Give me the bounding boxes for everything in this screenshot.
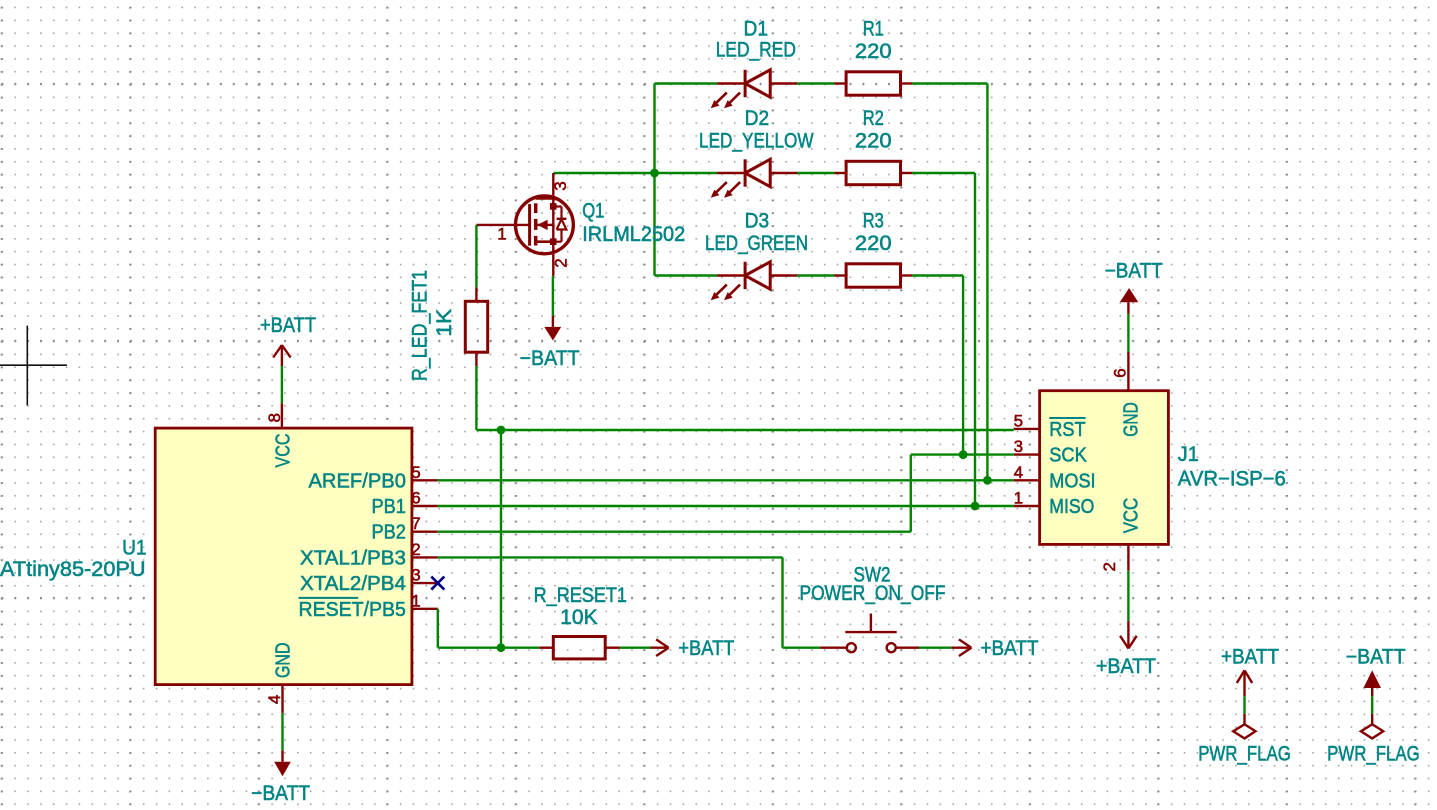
svg-text:MISO: MISO xyxy=(1049,496,1094,518)
svg-text:XTAL1/PB3: XTAL1/PB3 xyxy=(300,547,406,569)
svg-text:Q1: Q1 xyxy=(582,199,604,222)
svg-text:4: 4 xyxy=(265,695,284,704)
svg-text:LED_YELLOW: LED_YELLOW xyxy=(699,130,814,153)
svg-text:D1: D1 xyxy=(744,18,769,41)
svg-text:D2: D2 xyxy=(745,107,770,130)
svg-text:5: 5 xyxy=(411,463,420,482)
svg-text:3: 3 xyxy=(1014,437,1023,456)
svg-text:LED_RED: LED_RED xyxy=(716,39,796,62)
svg-text:220: 220 xyxy=(855,130,892,153)
svg-text:ATtiny85-20PU: ATtiny85-20PU xyxy=(0,558,146,581)
svg-text:8: 8 xyxy=(265,413,284,422)
svg-text:2: 2 xyxy=(1100,562,1119,571)
svg-text:220: 220 xyxy=(855,40,892,63)
svg-text:R_RESET1: R_RESET1 xyxy=(534,584,627,607)
svg-text:SCK: SCK xyxy=(1049,445,1087,467)
svg-text:7: 7 xyxy=(411,514,420,533)
svg-text:10K: 10K xyxy=(560,606,598,629)
svg-text:+BATT: +BATT xyxy=(678,637,734,660)
svg-text:6: 6 xyxy=(1110,368,1129,377)
svg-text:U1: U1 xyxy=(122,536,147,559)
svg-text:AVR−ISP−6: AVR−ISP−6 xyxy=(1178,468,1286,491)
svg-text:R1: R1 xyxy=(863,18,884,41)
svg-text:PB1: PB1 xyxy=(372,496,406,518)
svg-text:+BATT: +BATT xyxy=(981,637,1039,660)
svg-text:GND: GND xyxy=(1121,402,1143,437)
svg-text:XTAL2/PB4: XTAL2/PB4 xyxy=(300,573,406,595)
svg-text:4: 4 xyxy=(1014,463,1023,482)
svg-text:1: 1 xyxy=(1014,489,1023,508)
svg-text:VCC: VCC xyxy=(1121,498,1143,534)
svg-text:AREF/PB0: AREF/PB0 xyxy=(309,470,406,492)
svg-text:1: 1 xyxy=(411,591,420,610)
svg-text:POWER_ON_OFF: POWER_ON_OFF xyxy=(800,582,946,605)
svg-text:1: 1 xyxy=(497,225,506,244)
svg-text:1K: 1K xyxy=(433,309,456,337)
svg-text:6: 6 xyxy=(411,489,420,508)
svg-text:2: 2 xyxy=(552,258,571,267)
svg-text:+BATT: +BATT xyxy=(1096,655,1156,678)
svg-text:R2: R2 xyxy=(863,107,884,130)
svg-text:−BATT: −BATT xyxy=(1346,645,1406,668)
svg-text:3: 3 xyxy=(411,566,420,585)
svg-text:−BATT: −BATT xyxy=(520,347,580,370)
svg-text:R3: R3 xyxy=(863,210,884,233)
svg-text:−BATT: −BATT xyxy=(251,782,310,805)
svg-text:VCC: VCC xyxy=(273,434,295,468)
svg-text:2: 2 xyxy=(411,540,420,559)
svg-text:D3: D3 xyxy=(745,210,770,233)
svg-text:3: 3 xyxy=(551,181,570,190)
svg-text:GND: GND xyxy=(273,643,295,679)
svg-text:IRLML2502: IRLML2502 xyxy=(582,223,685,246)
svg-text:−BATT: −BATT xyxy=(1105,260,1163,283)
svg-text:R_LED_FET1: R_LED_FET1 xyxy=(409,270,432,381)
svg-text:220: 220 xyxy=(855,232,892,255)
svg-text:PWR_FLAG: PWR_FLAG xyxy=(1327,743,1420,766)
svg-text:RST: RST xyxy=(1049,419,1085,441)
svg-text:J1: J1 xyxy=(1178,443,1199,466)
svg-text:RESET/PB5: RESET/PB5 xyxy=(299,599,406,621)
svg-text:PB2: PB2 xyxy=(372,522,406,544)
svg-text:LED_GREEN: LED_GREEN xyxy=(705,232,808,255)
svg-text:5: 5 xyxy=(1014,411,1023,430)
svg-text:PWR_FLAG: PWR_FLAG xyxy=(1198,743,1291,766)
svg-text:MOSI: MOSI xyxy=(1049,470,1095,492)
svg-text:+BATT: +BATT xyxy=(1221,645,1279,668)
svg-text:+BATT: +BATT xyxy=(260,314,316,337)
